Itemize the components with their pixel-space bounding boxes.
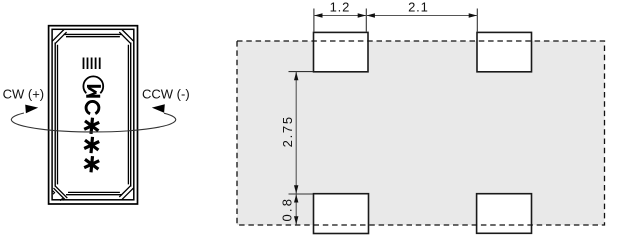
svg-text:CW (+): CW (+) bbox=[3, 86, 45, 101]
marking asterisk 2 bbox=[84, 137, 99, 153]
marking letter C (rotated, open at bottom) bbox=[86, 101, 99, 113]
dimension line 1.2 bbox=[314, 15, 366, 17]
lid outline inner (chamfered) bbox=[58, 37, 129, 193]
corner chamfer top-right bbox=[119, 30, 133, 44]
extension line pad1 bottom bbox=[289, 71, 314, 73]
marking asterisk 1 bbox=[84, 118, 99, 134]
rotation arrowhead right (CCW) bbox=[152, 104, 165, 113]
corner chamfer bottom-left (pin 1, notched) bbox=[53, 186, 68, 201]
land pattern dashed outline bbox=[237, 41, 605, 225]
rotation arrowhead left (CW) bbox=[25, 105, 38, 114]
arrow 2.75 top bbox=[294, 72, 298, 80]
pad top-left bbox=[314, 32, 369, 71]
svg-text:1.2: 1.2 bbox=[330, 0, 350, 15]
pad top-right bbox=[477, 32, 532, 71]
dimension line 2.1 bbox=[366, 15, 477, 17]
marking logo M (rotated) bbox=[86, 86, 101, 96]
dimension line 2.75 bbox=[295, 72, 297, 194]
marking bars bbox=[84, 58, 100, 70]
corner chamfer top-left bbox=[52, 30, 66, 44]
extension line pad3 top bbox=[289, 193, 314, 195]
arrow 2.1 left bbox=[367, 13, 375, 17]
package inner case edge bbox=[52, 29, 134, 200]
lid outline outer (chamfered) bbox=[55, 34, 131, 194]
dimension line 0.8 bbox=[295, 194, 297, 224]
arrow 1.2 left bbox=[314, 13, 322, 17]
extension line pad1 right bbox=[365, 9, 367, 32]
arrow 2.1 right bbox=[469, 13, 477, 17]
extension line pad2 left bbox=[476, 9, 478, 32]
arrow 0.8 bottom bbox=[294, 216, 298, 224]
extension line pad1 left bbox=[313, 9, 315, 32]
svg-text:CCW (-): CCW (-) bbox=[142, 86, 190, 101]
pad bottom-right bbox=[477, 194, 532, 234]
arrow 1.2 right bbox=[358, 13, 366, 17]
arrow 0.8 top bbox=[294, 194, 298, 202]
marking logo circle (open at bottom) bbox=[83, 76, 103, 93]
corner chamfer bottom-right bbox=[119, 185, 133, 199]
pad bottom-left bbox=[314, 194, 369, 234]
package outer case edge bbox=[49, 26, 138, 204]
svg-text:0.8: 0.8 bbox=[280, 197, 295, 222]
arrow 2.75 bottom bbox=[294, 185, 298, 193]
svg-text:2.75: 2.75 bbox=[280, 115, 295, 147]
marking asterisk 3 bbox=[84, 156, 99, 172]
rotation ellipse bbox=[11, 113, 175, 132]
svg-text:2.1: 2.1 bbox=[408, 0, 428, 15]
land pattern body (shaded) bbox=[237, 41, 605, 225]
